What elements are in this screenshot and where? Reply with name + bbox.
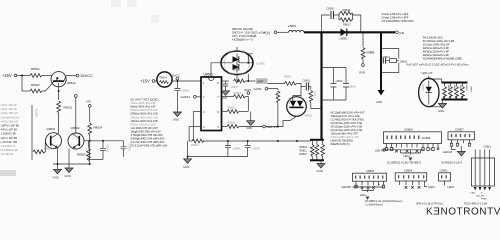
- node 5VCC: [172, 74, 181, 81]
- svg-text:C8608: C8608: [349, 86, 357, 89]
- junction snubber left: [321, 31, 323, 33]
- svg-text:GND: GND: [376, 100, 382, 104]
- svg-text:C8606: C8606: [182, 89, 190, 93]
- svg-text:2K2xlar-120H+Pv1-9F: 2K2xlar-120H+Pv1-9F: [423, 43, 450, 47]
- diode D8801 on bus: [340, 29, 349, 41]
- C8807 pin marks: [451, 134, 470, 137]
- svg-text:LED-PB: LED-PB: [476, 196, 484, 198]
- wire pin3 left: [193, 111, 201, 113]
- node OVR: [359, 64, 365, 75]
- bank labels: [300, 146, 308, 156]
- transistor Q8641: [51, 72, 76, 87]
- ground GND left1: [53, 164, 62, 180]
- wire emitter down: [58, 83, 60, 100]
- svg-text:8EH: 8EH: [370, 51, 375, 54]
- svg-text:NC LRA77 9LT3 (QLBC): NC LRA77 9LT3 (QLBC): [131, 98, 159, 102]
- wire node down to R8647: [21, 76, 23, 92]
- svg-text:R8819: R8819: [343, 8, 351, 12]
- svg-text:xD-x0Pux0: xD-x0Pux0: [1, 152, 14, 156]
- node GATE: [254, 87, 278, 91]
- svg-text:100x(aa-080-xPv1-9TF: 100x(aa-080-xPv1-9TF: [331, 132, 359, 136]
- C8806 pin pads: [385, 148, 434, 151]
- junction: [176, 80, 178, 82]
- svg-text:LED3-: LED3-: [428, 185, 435, 189]
- resistor bank stubs: [312, 141, 322, 160]
- page artifact left edge: [0, 170, 16, 176]
- C8806 pin marks: [387, 136, 420, 139]
- svg-text:C8805: C8805: [366, 169, 375, 173]
- svg-text:LED-VS: LED-VS: [422, 71, 433, 75]
- wire ellipse top to ladder: [429, 79, 442, 83]
- notes gray right-top: [382, 12, 414, 23]
- resistor R8602: [231, 79, 246, 89]
- svg-text:OVR: OVR: [359, 71, 365, 75]
- svg-text:xxPv1-16B u07: xxPv1-16B u07: [1, 111, 19, 115]
- svg-text:D8611: D8611: [400, 60, 408, 64]
- svg-text:L8k6V'9LT90(ER1): L8k6V'9LT90(ER1): [331, 139, 354, 143]
- wire pin3 rail down: [192, 112, 194, 142]
- svg-text:R8804: R8804: [465, 85, 467, 92]
- svg-text:D8Dd(a-0603 xPv1-16B: D8Dd(a-0603 xPv1-16B: [131, 108, 158, 112]
- svg-text:4E5d(a-120H+Pv1-9F: 4E5d(a-120H+Pv1-9F: [423, 50, 450, 54]
- svg-text:LED+: LED+: [360, 193, 367, 197]
- svg-text:10Exla(a-0.61 xPv1-16E: 10Exla(a-0.61 xPv1-16E: [331, 114, 360, 118]
- svg-text:8Dxlar-0.63 xPv1-16B: 8Dxlar-0.63 xPv1-16B: [131, 122, 156, 126]
- thick bus A vertical: [320, 32, 322, 139]
- svg-text:4E5d(a-120H+Pv1-9F: 4E5d(a-120H+Pv1-9F: [423, 46, 450, 50]
- ground GND bank: [317, 161, 326, 173]
- svg-text:C8605: C8605: [252, 146, 260, 150]
- C8806 pins below: [387, 144, 439, 148]
- svg-text:10Dxlar-0603 xPv1-16B: 10Dxlar-0603 xPv1-16B: [131, 119, 158, 123]
- ground GND c8807: [457, 146, 465, 156]
- svg-text:GK13x(aa-1206 xP%-1-6E: GK13x(aa-1206 xP%-1-6E: [331, 125, 363, 129]
- svg-text:1uF-0603-X7B xlPv-20T: 1uF-0603-X7B xlPv-20T: [131, 126, 159, 130]
- wire R8624 down: [89, 135, 91, 164]
- junction snubber right: [360, 31, 362, 33]
- junction base row: [89, 140, 91, 142]
- node 15VCC: [76, 73, 93, 78]
- resistor R8647: [22, 83, 42, 93]
- svg-text:Q8602: Q8602: [71, 126, 80, 130]
- svg-text:R8609: R8609: [228, 121, 236, 125]
- svg-text:KIC80gB B (+/-Y): KIC80gB B (+/-Y): [232, 38, 253, 42]
- svg-text:R8612: R8612: [300, 153, 308, 156]
- junction ellipse branch: [247, 80, 249, 82]
- svg-text:R8605: R8605: [234, 91, 242, 95]
- resistor R8624: [88, 123, 103, 135]
- inductor L8801: [288, 24, 304, 32]
- ground GND 5VCC: [173, 112, 182, 122]
- svg-text:KƎNOTRONTV: KƎNOTRONTV: [426, 206, 500, 217]
- capacitor C8604: [225, 141, 241, 157]
- svg-text:10TL d7u8 KIC80gB: 10TL d7u8 KIC80gB: [232, 34, 256, 38]
- C8807 pins below: [452, 140, 470, 144]
- C8805 diode marks: [361, 186, 375, 189]
- ladder labels: [447, 85, 471, 93]
- C8805 pin marks: [355, 176, 383, 179]
- wire pin6 right: [222, 106, 249, 114]
- svg-text:U8601: U8601: [204, 73, 214, 77]
- node LED3 c8804: [425, 185, 436, 189]
- notes text top center: [232, 27, 266, 42]
- svg-text:C8641: C8641: [106, 145, 110, 153]
- svg-text:D8Dd(a-0603 xPv1-16B: D8Dd(a-0603 xPv1-16B: [131, 112, 158, 116]
- svg-text:(-L-6(0)H-Reset-): (-L-6(0)H-Reset-): [365, 204, 384, 207]
- C8811 box: [472, 158, 495, 186]
- svg-text:2Vxlar-120H+P+1-9FF: 2Vxlar-120H+P+1-9FF: [382, 16, 409, 20]
- svg-text:C8811: C8811: [327, 7, 335, 11]
- svg-text:D8804: D8804: [421, 84, 423, 91]
- resistor R8608 vertical: [275, 89, 280, 128]
- caps C8602 C8608 right of bus: [321, 67, 357, 102]
- svg-text:BuOK: BuOK: [35, 109, 39, 117]
- svg-text:LED+: LED+: [404, 154, 411, 158]
- wire to fuse circle: [155, 80, 158, 82]
- resistor R8603 in bus: [191, 139, 204, 147]
- svg-text:R8607: R8607: [284, 75, 292, 79]
- svg-text:CC/4/ELIADVV/YTKA (TEK): CC/4/ELIADVV/YTKA (TEK): [331, 118, 365, 122]
- svg-text:GND: GND: [222, 97, 228, 100]
- svg-text:P8-15(4)/B-LBC): P8-15(4)/B-LBC): [423, 36, 443, 40]
- svg-text:1.3(5)62V 8B: 1.3(5)62V 8B: [1, 132, 17, 136]
- resistor R8625: [77, 141, 90, 161]
- resistor R8626: [33, 147, 53, 154]
- resistor R8817: [339, 15, 353, 27]
- wire ellipse bottom to pin8 row: [236, 75, 238, 81]
- connector C8805: [352, 169, 386, 181]
- svg-text:C8807: C8807: [455, 127, 464, 131]
- svg-text:NC10gE-680/1206 xP%-16T: NC10gE-680/1206 xP%-16T: [331, 111, 365, 115]
- ground GND ladder: [438, 104, 447, 114]
- svg-text:L-3Pv62F 10B: L-3Pv62F 10B: [1, 140, 18, 144]
- svg-text:C8-0-84AD8CKYP/5LTDK): C8-0-84AD8CKYP/5LTDK): [382, 19, 414, 23]
- node (L8) bus end: [395, 31, 404, 35]
- svg-text:C8811: C8811: [484, 145, 492, 149]
- resistor bank R8604: [310, 145, 314, 157]
- node junction: [21, 75, 23, 77]
- wire +15V to node: [17, 75, 30, 77]
- svg-text:+15V: +15V: [140, 79, 150, 84]
- svg-text:Q8601: Q8601: [47, 127, 56, 131]
- connector C8807: [448, 127, 475, 140]
- wire R8641 to Q8641: [42, 75, 52, 77]
- svg-text:D8O70 b- 10.8-7)(07L,a7u8: D8O70 b- 10.8-7)(07L,a7u8: [232, 31, 266, 35]
- ladder resistor R8803: [455, 84, 459, 99]
- wire pin7 right: [222, 91, 249, 98]
- svg-text:+5V: +5V: [86, 100, 91, 104]
- C8811 arrows: [474, 187, 491, 191]
- svg-text:P: P: [430, 148, 432, 152]
- emitter common wire: [53, 163, 90, 165]
- ladder resistor R8802: [449, 84, 453, 99]
- junction emitter: [58, 90, 60, 92]
- svg-text:8 800gB-0402-X7B xl8Pv-50V: 8 800gB-0402-X7B xl8Pv-50V: [131, 137, 165, 141]
- svg-text:8LA8C: 8LA8C: [257, 62, 266, 66]
- C8807 pin pads: [450, 143, 470, 146]
- resistor bank R8611: [315, 145, 319, 157]
- page artifact blob: [151, 15, 159, 23]
- snubber left leg: [322, 15, 330, 32]
- bus wire continue: [203, 140, 311, 142]
- thick bus B vertical: [380, 32, 382, 90]
- svg-text:C8806: C8806: [404, 127, 413, 131]
- bus B end arrow: [376, 90, 384, 104]
- capacitor C8605b: [245, 141, 261, 157]
- svg-text:XC-6.10uF-0402-X7B xl8Pv-16V: XC-6.10uF-0402-X7B xl8Pv-16V: [131, 144, 168, 148]
- C8804 diode marks: [405, 186, 421, 189]
- svg-text:D8602: D8602: [288, 98, 290, 105]
- svg-text:2C0D8: 2C0D8: [422, 136, 431, 140]
- svg-text:GK13x(aa-1206 xP%-1-6E: GK13x(aa-1206 xP%-1-6E: [331, 128, 363, 132]
- wire ellipse bottom to gnd: [429, 99, 443, 106]
- node +5V terminal: [86, 100, 92, 108]
- ground GND left2: [65, 168, 74, 178]
- connector C8801: [439, 168, 451, 181]
- wire ellipse right branch down: [248, 54, 253, 81]
- svg-text:C8602: C8602: [336, 80, 344, 83]
- svg-text:3C12RD10.3-L8U 7/B-IB8-O: 3C12RD10.3-L8U 7/B-IB8-O: [387, 160, 421, 164]
- svg-text:NC/N84D8/N84CA7dQ8/B (C8E): NC/N84D8/N84CA7dQ8/B (C8E): [423, 57, 462, 61]
- svg-text:8dE25/O(25) P-): 8dE25/O(25) P-): [331, 142, 351, 146]
- ground GND bus: [183, 141, 192, 169]
- resistor R8621: [57, 101, 73, 113]
- svg-text:4xPv1-16F 8B: 4xPv1-16F 8B: [1, 128, 18, 132]
- svg-text:GND: GND: [183, 165, 189, 169]
- node +15V left: [2, 73, 17, 78]
- left vertical rail: [31, 105, 33, 160]
- capacitor C8601 gate top: [301, 79, 311, 91]
- svg-text:R8608: R8608: [275, 92, 278, 100]
- svg-text:5VCC: 5VCC: [172, 74, 181, 78]
- LED+ arrow c8806: [404, 153, 413, 161]
- wire Q8602 collector up: [75, 98, 77, 134]
- svg-text:R8624: R8624: [94, 126, 103, 130]
- junction caps C8601: [321, 86, 323, 88]
- C8811 net labels: [471, 193, 487, 201]
- wire +5V down: [89, 107, 91, 122]
- wire pin4 left: [189, 126, 201, 128]
- capacitor C8606: [174, 81, 189, 112]
- svg-text:L8801: L8801: [288, 24, 297, 28]
- C8804 pin marks: [398, 175, 424, 178]
- svg-text:GND: GND: [53, 176, 59, 180]
- node LED-PB c8805: [342, 185, 384, 191]
- svg-text:+(V): +(V): [264, 31, 271, 35]
- node +15V center: [140, 79, 155, 84]
- svg-text:LED3: LED3: [448, 185, 455, 189]
- wire Q8602 emitter to rail: [68, 149, 70, 169]
- capacitor C8811: [327, 7, 340, 20]
- svg-text:(C0x(a-080?+P%-1-2TF: (C0x(a-080?+P%-1-2TF: [331, 135, 360, 139]
- wire LED-VS stub: [428, 76, 430, 79]
- resistor bank R8612: [321, 145, 325, 157]
- notes black right-top: [423, 36, 462, 61]
- svg-text:3C4RD10-2-L8-O: 3C4RD10-2-L8-O: [441, 160, 462, 164]
- svg-text:R8817: R8817: [343, 23, 351, 27]
- svg-text:P: P: [378, 183, 380, 187]
- IC U8601: [201, 73, 222, 131]
- node LED3-B: [443, 146, 456, 154]
- svg-text:D8801: D8801: [340, 37, 349, 41]
- svg-text:GND: GND: [173, 118, 179, 122]
- wire pin7-pin6 link: [247, 97, 249, 112]
- dual diode D8602 circle: [287, 96, 307, 117]
- wire ellipse top stub: [236, 47, 238, 51]
- svg-text:DLx480Px0.3B: DLx480Px0.3B: [1, 148, 19, 152]
- svg-text:R8802: R8802: [453, 85, 455, 92]
- svg-text:C8616: C8616: [313, 91, 315, 98]
- C8801 pins below: [445, 181, 455, 189]
- svg-text:10Dxlar-0603 xPv1-16B: 10Dxlar-0603 xPv1-16B: [131, 115, 158, 119]
- wire to coil: [277, 31, 289, 33]
- svg-text:GK13x(aa-1206 xP%-1-6E: GK13x(aa-1206 xP%-1-6E: [331, 121, 363, 125]
- svg-text:10xlar-0603 xPv1-16F: 10xlar-0603 xPv1-16F: [131, 101, 157, 105]
- wire R8621 to Q8601: [58, 113, 60, 134]
- svg-text:15VCC: 15VCC: [80, 73, 93, 78]
- text under C8805: [365, 200, 403, 207]
- capacitor C8642: [121, 141, 132, 157]
- wire pin4 rail down: [188, 127, 190, 142]
- node LED-VS: [263, 125, 278, 129]
- svg-text:NC/O+4B0-U-1-1-B4: NC/O+4B0-U-1-1-B4: [464, 202, 488, 205]
- svg-text:4 700gB-0402-X7B xl8v-50V: 4 700gB-0402-X7B xl8v-50V: [131, 133, 164, 137]
- svg-text:R8603: R8603: [191, 143, 199, 147]
- parts list center: [131, 98, 168, 148]
- svg-text:100gB-0402-0BO xPv-16V: 100gB-0402-0BO xPv-16V: [131, 129, 161, 133]
- wire Q8601 emitter to rail: [57, 148, 59, 164]
- dual diode D8801 ellipse: [221, 50, 253, 75]
- svg-text:+15V: +15V: [2, 73, 12, 78]
- svg-text:R8606: R8606: [228, 106, 236, 110]
- wire R8647 to base: [42, 82, 54, 91]
- parts list left: [1, 103, 21, 156]
- C8804 pins below: [400, 181, 425, 185]
- capacitor pin8 decoupling: [223, 81, 228, 91]
- svg-text:4xPv1-16F 8B: 4xPv1-16F 8B: [1, 136, 18, 140]
- svg-text:C8601: C8601: [303, 79, 311, 83]
- wire Q8602 base row: [84, 140, 124, 142]
- svg-text:LED3-B: LED3-B: [443, 150, 452, 154]
- node GATE1: [181, 95, 202, 99]
- resistor discharge vertical: [309, 87, 322, 109]
- resistor bank bottom bar: [310, 159, 324, 161]
- wire fuse to IC pin1: [172, 80, 201, 82]
- wire pin8 right: [222, 80, 230, 82]
- fusible resistor R8614: [157, 72, 172, 87]
- junction bus pts: [227, 140, 298, 142]
- connector C8804: [395, 168, 427, 181]
- ground GND pin6: [246, 112, 255, 131]
- wire LED-PB: [384, 148, 425, 154]
- node LED-PB c8806: [375, 148, 386, 152]
- svg-text:1.8/5.68H x0: 1.8/5.68H x0: [1, 144, 16, 148]
- svg-text:R8803: R8803: [459, 85, 461, 92]
- resistor R8607: [268, 75, 302, 97]
- C8801 pin marks: [441, 175, 447, 178]
- svg-text:0.0u7uF-0402-X7B xl8Pv-26V: 0.0u7uF-0402-X7B xl8Pv-26V: [131, 140, 165, 144]
- svg-text:C8804: C8804: [404, 168, 413, 172]
- wire to ARF: [246, 80, 256, 82]
- svg-text:80xlar-0603 xPv1-16F: 80xlar-0603 xPv1-16F: [131, 105, 157, 109]
- junction caps gnd: [187, 156, 189, 158]
- svg-text:ARF: ARF: [258, 80, 264, 84]
- C8805 pins below: [356, 181, 384, 185]
- svg-text:R8806: R8806: [469, 87, 471, 94]
- svg-text:GATE: GATE: [254, 87, 262, 91]
- svg-text:08D 09x DA(2xB): 08D 09x DA(2xB): [232, 27, 253, 31]
- svg-text:Q8641: Q8641: [67, 81, 76, 85]
- svg-text:LED-VS: LED-VS: [267, 125, 278, 129]
- svg-text:LED-PB: LED-PB: [342, 185, 352, 189]
- svg-text:OVD1: OVD1: [244, 88, 252, 92]
- svg-text:R8801: R8801: [447, 85, 449, 92]
- ladder resistor R8804: [461, 84, 465, 99]
- node OVD1: [244, 88, 252, 95]
- C8805 pin pads: [355, 185, 385, 188]
- svg-text:4'uF 1057 xxPx10-(2.3.10)C (KZ: 4'uF 1057 xxPx10-(2.3.10)C (KZ+I)/I\ P+1…: [406, 63, 469, 67]
- resistor R8641: [30, 67, 42, 77]
- svg-text:C8604: C8604: [233, 146, 241, 150]
- transistor Q8601: [46, 127, 62, 149]
- thick bus B+ top: [304, 31, 395, 33]
- svg-text:5C1KDxlar-120H xPv1-9B: 5C1KDxlar-120H xPv1-9B: [423, 39, 454, 43]
- svg-text:D8801: D8801: [233, 69, 240, 71]
- wire cap bottom rail: [89, 159, 104, 161]
- junction: [89, 163, 91, 165]
- svg-text:R8641: R8641: [31, 67, 40, 71]
- junction base row 2: [102, 140, 104, 142]
- resistor R8819: [339, 8, 353, 15]
- svg-text:R8614: R8614: [160, 77, 168, 80]
- wire caps bottom: [188, 156, 248, 158]
- P mark: [430, 148, 439, 152]
- svg-text:GND: GND: [438, 109, 444, 113]
- ladder bottom bar: [442, 99, 468, 101]
- page artifact blob top 2: [128, 0, 137, 7]
- ground GND pin8: [222, 91, 230, 100]
- svg-text:GND: GND: [317, 169, 323, 173]
- wire R8626 to Q8601 base: [44, 141, 47, 152]
- svg-text:GATE1: GATE1: [181, 95, 191, 99]
- component C8611: [381, 49, 408, 73]
- svg-text:R8647: R8647: [31, 83, 40, 87]
- snubber right leg: [353, 15, 361, 32]
- resistor bank top bar: [310, 139, 324, 141]
- wire pin5 right: [222, 121, 278, 129]
- wire collector to 15VCC: [66, 75, 76, 77]
- svg-text:xxPv1-16B u05: xxPv1-16B u05: [1, 119, 19, 123]
- svg-text:(P/N-2-S-L/B-G-/P/3-D)-/: (P/N-2-S-L/B-G-/P/3-D)-/: [416, 202, 444, 205]
- LED D8804 ellipse: [419, 78, 439, 106]
- C8806 diode marks: [395, 150, 419, 153]
- svg-text:D8601: D8601: [305, 114, 313, 118]
- ladder resistor R8801: [443, 84, 447, 99]
- connector C8806: [384, 127, 442, 143]
- junction pin8: [237, 80, 239, 82]
- svg-text:(L8): (L8): [399, 31, 404, 35]
- notes text right-mid: [331, 111, 365, 147]
- svg-text:xxPx1-16F 4P: xxPx1-16F 4P: [1, 107, 18, 111]
- wire D8602 bottom jog: [278, 116, 297, 126]
- svg-text:C8801: C8801: [440, 168, 449, 172]
- svg-text:2Vxlar-120H+P+1-9FF: 2Vxlar-120H+P+1-9FF: [382, 12, 409, 16]
- junction: [57, 163, 59, 165]
- transistor Q8602: [68, 126, 84, 149]
- svg-text:xxPx1-16F 4P: xxPx1-16F 4P: [1, 103, 18, 107]
- C8811 wires: [475, 150, 489, 187]
- resistor R8814: [361, 34, 375, 64]
